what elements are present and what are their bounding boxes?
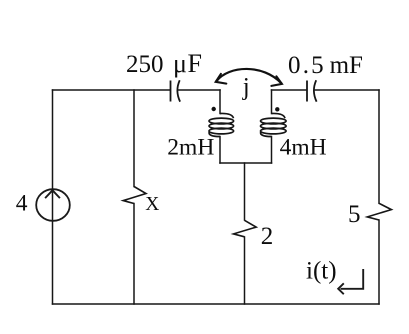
wire middle branch upper	[244, 163, 246, 220]
wire left vertical	[52, 90, 54, 304]
wire right vertical lower	[378, 220, 380, 304]
dot marker L2	[275, 107, 279, 111]
resistor X squiggle	[123, 187, 146, 204]
inductor L1 2mH coil	[209, 113, 234, 136]
wire right inductor branch lower	[271, 137, 273, 164]
svg-text:i(t): i(t)	[306, 258, 337, 285]
wire bottom connector between inductors	[220, 162, 272, 164]
wire bottom horizontal	[53, 303, 380, 305]
wire left inductor branch lower	[219, 137, 221, 164]
resistor 5 squiggle	[367, 203, 391, 220]
arrow i(t)	[338, 269, 363, 294]
wire x-branch upper	[133, 90, 135, 187]
current source I1 (4 A)	[36, 189, 70, 221]
wire left inductor branch upper	[219, 90, 221, 114]
svg-text:4mH: 4mH	[280, 135, 327, 161]
wire between cap C1 and node A	[179, 89, 220, 91]
svg-text:250μF: 250μF	[126, 49, 202, 78]
wire top-right horizontal	[272, 89, 307, 91]
wire right inductor branch upper	[271, 90, 273, 114]
wire middle branch lower	[244, 237, 246, 304]
coupling arrow j arc	[216, 69, 282, 86]
svg-text:4: 4	[16, 190, 28, 216]
svg-text:j: j	[242, 74, 250, 101]
dot marker L1	[212, 107, 216, 111]
svg-text:0.5 mF: 0.5 mF	[288, 52, 363, 79]
capacitor C2 0.5mF	[307, 80, 317, 101]
svg-text:2mH: 2mH	[167, 134, 214, 160]
svg-text:2: 2	[261, 223, 274, 250]
resistor 2 squiggle	[234, 220, 257, 237]
svg-text:X: X	[145, 194, 159, 215]
wire between cap C2 and right corner	[315, 89, 379, 91]
svg-text:5: 5	[348, 201, 361, 228]
inductor L2 4mH coil	[261, 113, 287, 136]
wire top-left horizontal	[53, 89, 171, 91]
wire right vertical upper	[378, 90, 380, 203]
capacitor C1 250uF	[171, 80, 181, 101]
wire x-branch lower	[133, 204, 135, 305]
